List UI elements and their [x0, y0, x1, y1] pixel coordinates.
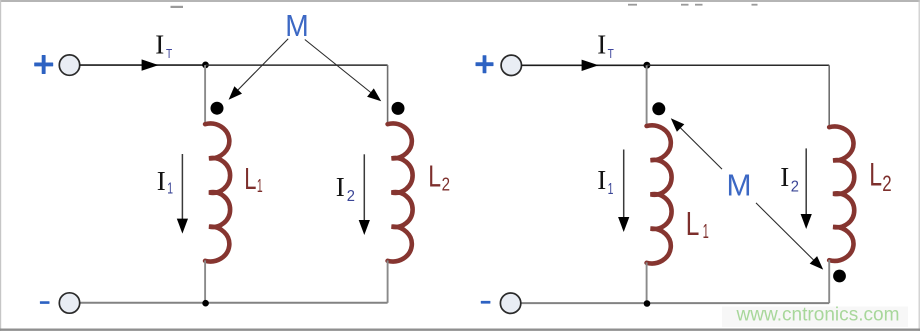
svg-text:I: I — [155, 30, 164, 60]
wire branch L2 lower (right circuit) — [828, 260, 830, 303]
wire branch L2 lower (left circuit) — [387, 260, 389, 302]
wire branch L1 upper (right circuit) — [646, 65, 648, 126]
wire bottom rail (right circuit) — [521, 302, 829, 304]
wire bottom rail (left circuit) — [80, 302, 388, 304]
terminal circle negative (right circuit) — [500, 293, 520, 313]
current arrow IT (right) — [582, 60, 599, 71]
terminal circle negative (left circuit) — [59, 293, 79, 313]
svg-text:www.cntronics.com: www.cntronics.com — [735, 304, 899, 325]
polarity dot L1 (right circuit) — [652, 102, 665, 115]
svg-text:M: M — [285, 9, 309, 43]
svg-text:L: L — [244, 162, 256, 196]
svg-text:I: I — [157, 166, 166, 196]
label I1 (left circuit) — [157, 166, 173, 197]
arrow M to L1 dot — [229, 39, 289, 100]
wire from + terminal to node A — [80, 64, 206, 66]
svg-text:1: 1 — [257, 176, 263, 196]
wire top rail (right circuit) — [647, 64, 829, 66]
polarity dot L2 (left circuit) — [392, 102, 405, 115]
wire branch L1 lower (right circuit) — [646, 262, 648, 303]
polarity dot L2 (right circuit) — [833, 270, 846, 283]
terminal circle positive (right circuit) — [501, 55, 521, 75]
label L2 (right circuit) — [869, 157, 891, 196]
svg-text:L: L — [869, 157, 882, 193]
current arrow I1 (right circuit) — [618, 150, 629, 233]
terminal plus sign (left circuit) — [34, 55, 53, 74]
label I1 (right circuit) — [597, 165, 613, 198]
label L1 (right circuit) — [686, 205, 709, 243]
svg-text:1: 1 — [608, 181, 614, 198]
junction node bottom (left circuit) — [202, 300, 209, 307]
wire branch L1 upper (left circuit) — [204, 65, 206, 125]
svg-text:2: 2 — [442, 174, 450, 194]
label I2 (right circuit) — [780, 162, 799, 196]
svg-text:T: T — [608, 47, 614, 61]
double arrow M between dots (right circuit) — [671, 118, 823, 269]
svg-text:L: L — [686, 205, 700, 242]
svg-text:1: 1 — [703, 221, 709, 243]
label L2 (left circuit) — [428, 159, 450, 194]
cropped heading text remnant — [171, 4, 758, 8]
wire branch L2 upper (right circuit) — [828, 65, 830, 127]
label IT (left) — [155, 30, 172, 61]
svg-text:I: I — [336, 172, 345, 202]
svg-text:1: 1 — [167, 181, 173, 198]
wire branch L1 lower (left circuit) — [204, 260, 206, 302]
svg-text:2: 2 — [882, 171, 891, 196]
inductor L2 coil (right circuit) — [829, 127, 854, 261]
svg-text:I: I — [780, 162, 789, 192]
svg-text:2: 2 — [347, 188, 355, 205]
junction node A (left top) — [202, 62, 209, 69]
label IT (right) — [597, 30, 614, 61]
label L1 (left circuit) — [244, 162, 262, 196]
svg-text:I: I — [597, 30, 606, 60]
svg-text:2: 2 — [791, 179, 799, 196]
terminal minus sign (right circuit) — [481, 301, 491, 304]
current arrow I1 (left circuit) — [177, 154, 188, 234]
terminal minus sign (left circuit) — [40, 301, 50, 304]
current arrow I2 (left circuit) — [359, 154, 370, 235]
inductor L1 coil (right circuit) — [647, 125, 672, 263]
wire from + terminal to node (right) — [521, 64, 647, 66]
terminal plus sign (right circuit) — [476, 55, 494, 73]
inductor L2 coil (left circuit) — [388, 124, 413, 262]
polarity dot L1 (left circuit) — [211, 102, 224, 115]
svg-text:T: T — [166, 47, 172, 61]
current arrow IT (left) — [142, 59, 159, 70]
svg-text:M: M — [727, 168, 752, 203]
label I2 (left circuit) — [336, 172, 355, 205]
junction node top (right circuit) — [643, 62, 650, 69]
current arrow I2 (right circuit) — [801, 148, 812, 229]
wire branch L2 upper (left circuit) — [387, 65, 389, 125]
svg-text:I: I — [597, 165, 606, 195]
junction node bottom (right circuit) — [644, 300, 651, 307]
arrow M to L2 dot — [305, 40, 381, 102]
wire top rail (left circuit) — [206, 64, 388, 66]
inductor L1 coil (left circuit) — [205, 124, 230, 262]
svg-text:L: L — [428, 159, 441, 193]
terminal circle positive (left circuit) — [59, 55, 79, 75]
